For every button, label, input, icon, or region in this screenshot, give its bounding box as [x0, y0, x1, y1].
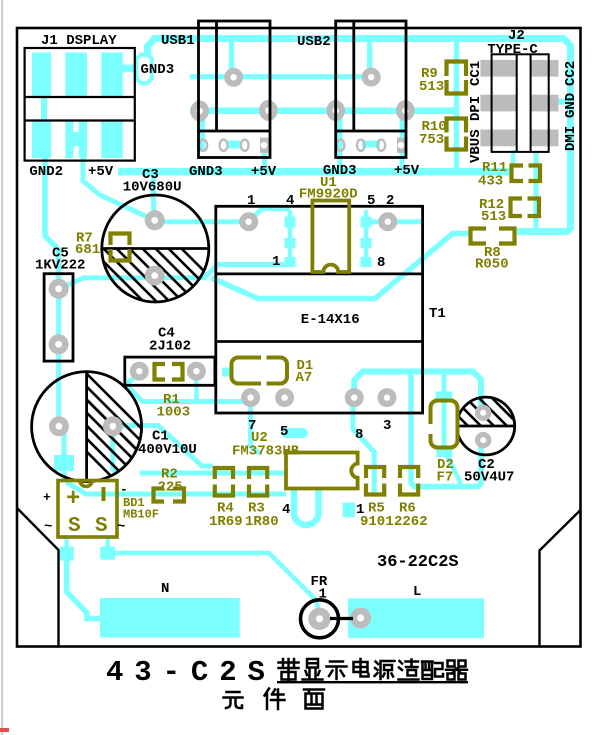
svg-text:USB1: USB1 [161, 33, 195, 49]
wire BD1 left stub [64, 536, 69, 548]
resistor R6 footprint [400, 467, 418, 478]
wire pad8 down to R5 [353, 399, 374, 468]
wire USB1 center pad stub [229, 40, 235, 77]
svg-text:CC2: CC2 [563, 61, 579, 86]
svg-text:USB2: USB2 [297, 34, 331, 50]
capacitor C5 outline [44, 274, 73, 361]
diode D2 footprint [431, 401, 458, 448]
node blob near U2 pin1 [343, 503, 356, 518]
wire J1 GND2 to C5 [45, 157, 59, 288]
svg-text:400V10U: 400V10U [138, 442, 197, 458]
svg-text:+5V: +5V [88, 164, 114, 180]
bridge BD1 outline [58, 481, 117, 538]
glyph xian [303, 659, 323, 680]
ic U1 outline [312, 201, 349, 273]
pad C2 bottom [475, 432, 491, 448]
wire rail y473 [140, 471, 286, 476]
node GND3 hexagon pad [136, 55, 152, 84]
wire U shape below U2 [294, 489, 318, 525]
connector J1 outline [25, 48, 135, 161]
resistor R3 footprint [249, 468, 267, 479]
pad FR center [308, 608, 330, 630]
fuse FR ring [301, 600, 339, 638]
pad FR right [350, 608, 371, 629]
glyph shi [327, 662, 347, 680]
wire BD1 right stub [105, 536, 110, 548]
pad C1 right [103, 416, 123, 436]
svg-text:-: - [120, 482, 128, 497]
svg-text:S: S [95, 515, 108, 538]
svg-text:5: 5 [367, 193, 375, 209]
node D2 top pad [436, 392, 453, 402]
wire USB2 GND3 down to rail [338, 112, 343, 172]
bridge BD1 notch [80, 481, 92, 487]
svg-text:~: ~ [44, 519, 52, 535]
svg-text:+5V: +5V [394, 163, 420, 179]
node D2 bottom pad [437, 447, 453, 458]
glyph dian [354, 659, 369, 677]
connector J1 pad row top [32, 53, 51, 98]
pad USB2 left [326, 100, 345, 121]
capacitor C3 outline [102, 195, 209, 302]
svg-text:+: + [43, 490, 51, 505]
resistor R7 footprint [111, 234, 130, 246]
capacitor C2 outline [457, 397, 515, 455]
svg-text:10V680U: 10V680U [123, 180, 182, 196]
svg-text:GND2: GND2 [29, 164, 63, 180]
wire USB2 bar pads link [362, 141, 380, 148]
pad USB2 center [362, 68, 381, 87]
wire J1 to GND3 hexagon [122, 65, 137, 73]
pads J2 type-c left column [480, 60, 516, 77]
svg-text:T1: T1 [429, 306, 446, 322]
svg-text:S: S [68, 515, 81, 538]
pad T1 pin5 [275, 388, 294, 407]
transformer T1 outline [216, 206, 423, 413]
diode D2 gap [427, 424, 434, 434]
wire pad8 up over to C2 top [354, 372, 481, 411]
node L pad area [348, 598, 484, 638]
board chamfer right [540, 510, 581, 647]
wire T1 pin5-2 column [364, 210, 369, 266]
resistor R1 footprint [155, 364, 166, 380]
wire mid rail y76 [190, 74, 371, 79]
resistor R5 footprint [366, 467, 384, 478]
wire C5 to C1 [56, 290, 61, 424]
svg-text:FM9920D: FM9920D [299, 187, 358, 203]
svg-text:8: 8 [377, 255, 385, 271]
connector USB1 outline [199, 21, 271, 158]
title underline [277, 681, 468, 683]
pad USB1 center [224, 68, 243, 87]
svg-text:43-C2S: 43-C2S [106, 656, 276, 689]
wire thin to FR [115, 553, 318, 608]
svg-text:+5V: +5V [251, 164, 277, 180]
svg-text:225: 225 [158, 480, 183, 496]
pad T1 pin7 [241, 388, 260, 407]
wire branch through transformer to R8 [211, 234, 470, 299]
connector J1 pad row bottom [32, 121, 51, 159]
svg-text:GND3: GND3 [141, 62, 175, 78]
ic U2 outline [286, 453, 358, 489]
svg-text:2262: 2262 [394, 514, 428, 530]
wire USB2 +5V down to rail [400, 112, 405, 172]
svg-text:681: 681 [75, 242, 100, 258]
svg-text:50V4U7: 50V4U7 [464, 470, 514, 486]
svg-text:1R80: 1R80 [245, 514, 279, 530]
pads J2 type-c right column [531, 60, 559, 77]
svg-text:CC1: CC1 [468, 61, 484, 86]
resistor R2 footprint [154, 489, 165, 502]
glyph shi4 [399, 660, 419, 680]
svg-text:VBUS: VBUS [468, 129, 484, 163]
board chamfer left [17, 508, 59, 647]
pad T1 pin2 [378, 212, 397, 231]
svg-text:513: 513 [481, 209, 506, 225]
bridge BD1 minus bar [102, 487, 106, 501]
svg-text:1: 1 [272, 254, 280, 270]
wire T1 pin1-4 column [288, 210, 293, 266]
svg-text:2: 2 [386, 193, 394, 209]
wire BD1 to N [67, 558, 101, 619]
wire J1 pad1 through stub [41, 97, 47, 121]
pad USB1 left [190, 101, 209, 122]
resistor R11 footprint [512, 166, 524, 182]
pad C3 bottom [145, 266, 165, 286]
resistor R4 footprint [215, 468, 233, 479]
wire pin5 to pad2 [366, 219, 388, 224]
resistor R10 footprint [447, 119, 467, 133]
wire C1 right pad down [113, 428, 117, 473]
wire T1 pad1 up right [249, 209, 290, 222]
svg-text:N: N [161, 581, 169, 597]
svg-text:F7: F7 [437, 470, 454, 486]
node pin4 pads [285, 217, 296, 228]
node BD1 right square [100, 547, 115, 560]
svg-text:DPI: DPI [468, 96, 484, 121]
capacitor C4 outline [125, 357, 215, 385]
pad C2 top [475, 405, 491, 421]
pad T1 pin8 [345, 388, 364, 407]
wire pad2 stub right [388, 219, 421, 224]
resistor R12 footprint [511, 199, 523, 217]
wire USB2 center pad stub [367, 40, 373, 77]
svg-text:8: 8 [355, 427, 363, 443]
wire branch up to T1 pin1 row [204, 265, 291, 278]
diode D1 gap [261, 354, 267, 387]
svg-text:1: 1 [319, 587, 327, 603]
svg-text:3: 3 [383, 418, 391, 434]
svg-text:+: + [66, 486, 80, 513]
wire C1 left pad down to BD1 [62, 430, 67, 482]
svg-text:A7: A7 [296, 370, 313, 386]
wire USB1 +5V down to rail [262, 145, 267, 172]
node BD1 left square [60, 547, 74, 561]
pad T1 pin1 [239, 212, 258, 231]
wire mid rail y110 [190, 107, 457, 114]
wire T1 pad7 down to U2 [251, 398, 259, 454]
node pin5 pads [361, 217, 372, 228]
pad USB2 right [396, 100, 415, 121]
wire CC1 stub [511, 150, 516, 165]
wire D2 top stub [442, 374, 447, 392]
connector J2 outline [492, 54, 549, 152]
svg-text:5: 5 [280, 424, 288, 440]
wire D2 internal [442, 396, 447, 450]
wire rail y492 [66, 482, 286, 494]
svg-text:1: 1 [247, 193, 255, 209]
glyph jian [265, 689, 285, 710]
wire x411 net to C2 bottom [411, 371, 481, 487]
red speck bottom-left [0, 728, 9, 732]
glyph dai [279, 659, 299, 681]
pad bar USB1 [199, 140, 207, 151]
svg-text:2J102: 2J102 [149, 339, 191, 355]
svg-text:GND: GND [563, 93, 579, 118]
wire GND stub J2 right [558, 99, 568, 105]
svg-text:433: 433 [478, 174, 503, 190]
capacitor C2 hatch [432, 390, 544, 450]
svg-text:36-22C2S: 36-22C2S [377, 553, 459, 572]
pad T1 pin3 [378, 388, 397, 407]
wire pin5-8 bar [286, 428, 303, 438]
wire FR link black [330, 617, 353, 620]
svg-text:9101: 9101 [360, 514, 394, 530]
svg-text:~: ~ [117, 519, 125, 535]
node blob below C1 left pad [54, 455, 74, 471]
glyph qi [446, 661, 467, 680]
resistor R8 footprint [471, 229, 487, 244]
pad C3 top [145, 210, 165, 230]
wire long rail y171 [118, 168, 511, 176]
svg-text:513: 513 [419, 79, 444, 95]
resistor R9 footprint [447, 62, 467, 77]
svg-text:1003: 1003 [157, 405, 191, 421]
svg-text:DMI: DMI [563, 126, 579, 151]
wire USB1 bar pads link [227, 141, 241, 149]
wire J1 +5V to C3 [83, 157, 155, 220]
pad C1 left [49, 416, 69, 436]
screen edge artifact line [1, 0, 3, 735]
wire R5 internal [372, 466, 377, 496]
svg-text:TYPE-C: TYPE-C [487, 42, 538, 58]
connector USB2 outline [336, 21, 406, 158]
capacitor C1 outline [32, 372, 142, 482]
diode D1 footprint [232, 358, 288, 384]
svg-text:1R69: 1R69 [209, 514, 243, 530]
board outline [17, 28, 581, 647]
wire C3 top pad to rail [151, 173, 156, 212]
capacitor C3 hatch [64, 235, 248, 315]
wire D2 bottom to net [447, 455, 460, 487]
svg-text:4: 4 [282, 502, 290, 518]
pad C4 left [130, 362, 149, 381]
wire C3 pad to T1 pad1 [155, 219, 249, 224]
svg-text:J1 DSPLAY: J1 DSPLAY [41, 33, 117, 49]
pad USB1 right [259, 100, 278, 121]
wire R9 R10 column [454, 41, 460, 172]
pad C5 top [49, 279, 69, 299]
wire C5 pad right run [63, 278, 206, 287]
svg-text:R050: R050 [475, 257, 509, 273]
svg-text:MB10F: MB10F [123, 508, 159, 522]
glyph mian [304, 690, 324, 709]
wire R11 R12 column [534, 151, 539, 229]
wire C1 right pad to R4 [113, 426, 213, 467]
glyph yuan [224, 692, 243, 708]
svg-text:L: L [413, 584, 421, 600]
node N pad area [100, 598, 240, 638]
wire C4 left pad to T1 pad7 [126, 372, 249, 402]
wire C4 right pad stub [194, 374, 199, 399]
svg-text:753: 753 [419, 132, 444, 148]
wire top +5V bus band [148, 39, 571, 232]
pad C5 bottom [49, 334, 69, 354]
glyph pei [422, 662, 443, 680]
pad bar USB2 [337, 140, 345, 151]
glyph yuan2 [375, 661, 395, 679]
svg-text:1KV222: 1KV222 [35, 258, 85, 274]
wire D1 stub [222, 368, 233, 377]
pad C4 right [187, 362, 206, 381]
svg-text:FM3783HB: FM3783HB [232, 444, 300, 460]
wire USB1 left pad down [200, 111, 205, 152]
svg-text:E-14X16: E-14X16 [301, 312, 360, 328]
svg-text:GND3: GND3 [189, 164, 223, 180]
svg-text:4: 4 [286, 193, 294, 209]
capacitor C1 hatch [47, 347, 173, 525]
